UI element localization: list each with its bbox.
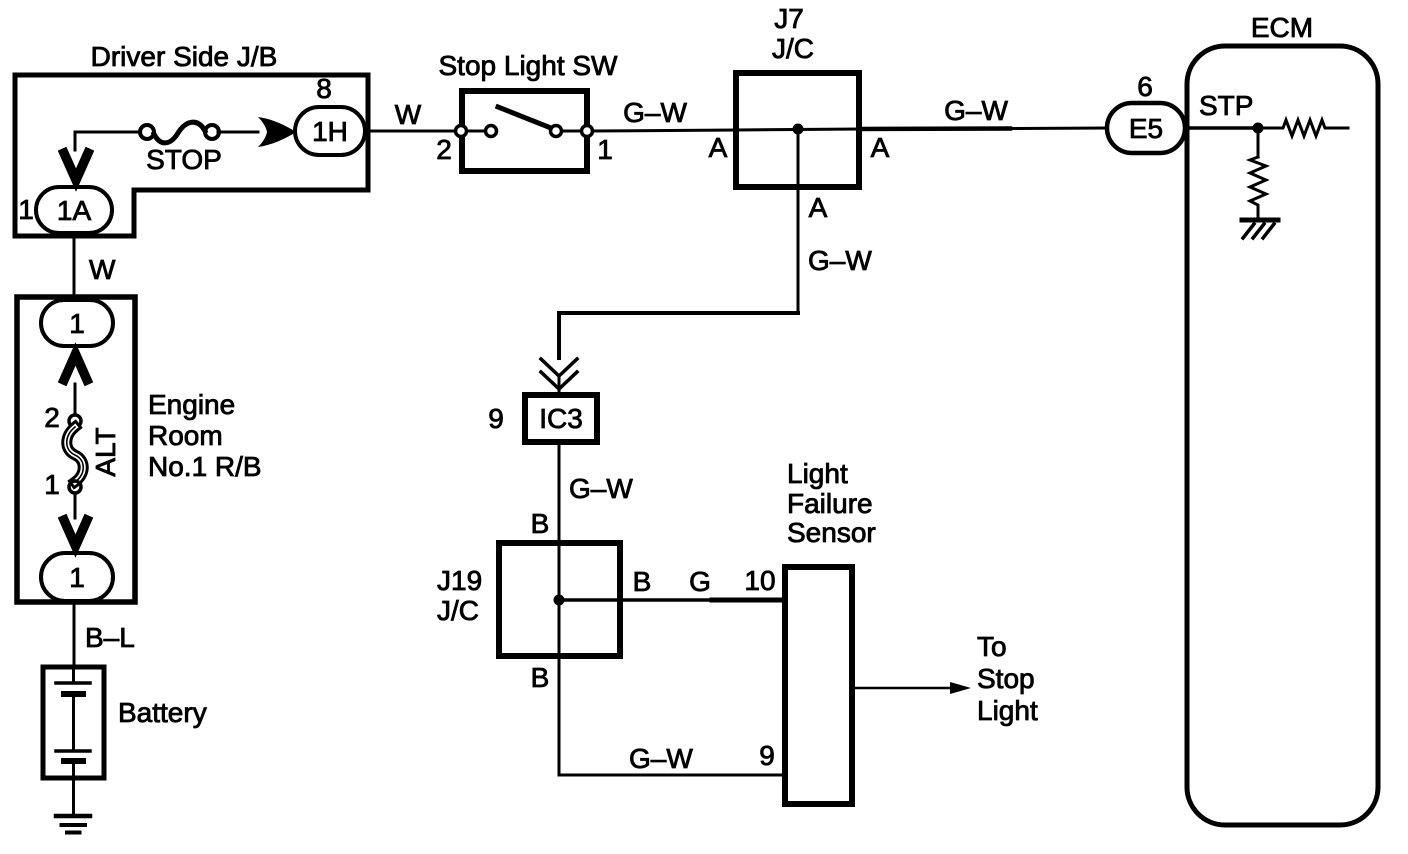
wire down and right to sensor pin 9 (559, 656, 785, 775)
battery cells (72, 667, 75, 683)
connector arrow up (64, 354, 87, 380)
connector arrow down (64, 520, 87, 546)
connector arrow into 1A (64, 153, 88, 180)
svg-text:B: B (531, 662, 550, 693)
connector E5 (1107, 103, 1185, 153)
fuse STOP (140, 122, 219, 143)
svg-text:A: A (709, 132, 728, 163)
wire jog from J7 to IC3 (559, 313, 798, 358)
connector 1 bottom of R/B (41, 553, 113, 601)
wire E5 into ECM (1185, 126, 1258, 130)
svg-text:Failure: Failure (787, 488, 873, 519)
wire G-W IC3 to J19 (558, 442, 561, 543)
node A junction dot (793, 124, 804, 135)
resistor R vertical (1250, 157, 1266, 209)
svg-text:8: 8 (316, 73, 332, 104)
svg-text:B–L: B–L (85, 622, 135, 653)
svg-text:G–W: G–W (629, 743, 693, 774)
engine room No.1 R/B box (17, 297, 135, 602)
ECM box (1187, 46, 1378, 825)
switch contact (467, 130, 485, 133)
svg-text:Battery: Battery (118, 697, 207, 728)
arrow to stop light (852, 687, 952, 690)
svg-text:1H: 1H (312, 116, 348, 147)
wire from fuse to 1A (75, 132, 140, 150)
stop light switch box (462, 91, 587, 171)
svg-text:E5: E5 (1129, 113, 1163, 144)
resistor R horizontal (1258, 120, 1348, 136)
switch terminal pin 1 (582, 126, 593, 137)
wire 1A to engine room R/B (73, 233, 76, 297)
wire through J7 (736, 129, 859, 130)
svg-text:To: To (977, 631, 1007, 662)
ground (chassis) in ECM (1242, 220, 1278, 238)
ground (earth) below battery (56, 814, 90, 819)
svg-text:9: 9 (759, 740, 775, 771)
switch terminal pin 2 (456, 126, 467, 137)
wire arrow to fusible link (74, 384, 77, 415)
svg-text:J19: J19 (437, 565, 482, 596)
svg-text:1: 1 (69, 308, 85, 339)
svg-text:G–W: G–W (623, 97, 687, 128)
fusible link ALT squiggle (67, 427, 84, 482)
connector 1 top of R/B (41, 300, 113, 346)
svg-text:Sensor: Sensor (787, 517, 876, 548)
wire fuse to arrow 1H (218, 131, 258, 134)
svg-text:1: 1 (18, 194, 34, 225)
connector 1A (36, 187, 112, 233)
wire through J19 vertical (558, 543, 561, 656)
svg-text:B: B (531, 508, 550, 539)
svg-text:1: 1 (69, 562, 85, 593)
svg-text:Stop Light SW: Stop Light SW (439, 50, 619, 81)
svg-text:G–W: G–W (944, 95, 1008, 126)
wire to ground (1257, 209, 1260, 219)
svg-text:9: 9 (488, 403, 504, 434)
svg-text:Light: Light (787, 458, 848, 489)
node B junction dot (554, 595, 565, 606)
wire W to stop light switch (368, 130, 456, 133)
wire G-W switch to J7 (593, 130, 736, 131)
fusible link ALT terminal 1 (69, 481, 81, 493)
fusible link ALT terminal 2 (69, 415, 81, 427)
svg-text:G: G (689, 566, 711, 597)
svg-text:Light: Light (977, 695, 1038, 726)
wire link to down arrow (74, 493, 77, 518)
svg-text:1: 1 (44, 469, 60, 500)
svg-text:ECM: ECM (1251, 12, 1313, 43)
shield chevrons into IC3 (541, 359, 577, 376)
svg-text:W: W (89, 254, 116, 285)
svg-text:No.1 R/B: No.1 R/B (148, 451, 262, 482)
svg-text:J/C: J/C (437, 595, 479, 626)
wire G-W J7 to E5 (859, 126, 1010, 131)
junction connector J19 box (499, 543, 620, 656)
svg-text:G–W: G–W (569, 473, 633, 504)
svg-text:10: 10 (744, 565, 775, 596)
svg-text:W: W (395, 99, 422, 130)
svg-text:J/C: J/C (772, 33, 814, 64)
svg-text:STP: STP (1199, 90, 1253, 121)
svg-text:Driver Side J/B: Driver Side J/B (91, 41, 278, 72)
svg-text:1A: 1A (57, 195, 92, 226)
svg-text:Room: Room (148, 420, 223, 451)
wire B to sensor pin 10 (559, 598, 712, 602)
battery box (43, 667, 104, 778)
connector IC3 (525, 395, 597, 442)
svg-text:2: 2 (44, 402, 60, 433)
wire to resistor R vertical (1257, 128, 1260, 157)
svg-text:J7: J7 (774, 3, 804, 34)
svg-text:A: A (871, 132, 890, 163)
svg-text:1: 1 (597, 134, 613, 165)
switch blade (498, 107, 556, 130)
wire battery to ground (72, 778, 75, 813)
wire J7 down (797, 129, 800, 313)
svg-text:6: 6 (1137, 71, 1153, 102)
svg-text:IC3: IC3 (539, 403, 583, 434)
svg-text:2: 2 (436, 134, 452, 165)
svg-text:G–W: G–W (808, 245, 872, 276)
wire B-L to battery (73, 601, 76, 666)
node STP junction dot (1253, 123, 1264, 134)
light failure sensor box (785, 567, 852, 804)
connector 1H (295, 107, 365, 155)
svg-text:ALT: ALT (90, 427, 121, 476)
svg-text:STOP: STOP (146, 144, 222, 175)
svg-text:B: B (633, 566, 652, 597)
svg-text:Stop: Stop (977, 663, 1035, 694)
junction connector J7 box (736, 73, 859, 187)
junction block Driver Side J/B outline (15, 75, 368, 236)
svg-text:A: A (809, 192, 828, 223)
svg-text:Engine: Engine (148, 389, 235, 420)
wire into IC3 (558, 376, 561, 395)
connector arrow into 1H (258, 117, 296, 147)
